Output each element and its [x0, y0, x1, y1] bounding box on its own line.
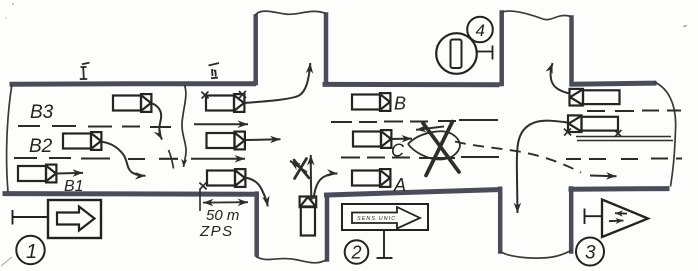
- svg-text:50 m: 50 m: [206, 207, 239, 224]
- svg-text:C: C: [391, 141, 405, 161]
- svg-text:4: 4: [476, 21, 485, 40]
- svg-text:B1: B1: [64, 178, 84, 195]
- svg-text:A: A: [393, 175, 406, 195]
- svg-text:SENS UNIC: SENS UNIC: [357, 216, 396, 222]
- svg-text:B2: B2: [29, 136, 53, 157]
- svg-text:1: 1: [26, 241, 37, 263]
- svg-text:2: 2: [351, 243, 362, 263]
- svg-text:3: 3: [585, 243, 596, 264]
- svg-text:B3: B3: [30, 102, 54, 123]
- svg-text:B: B: [394, 94, 406, 114]
- svg-text:ZPS: ZPS: [199, 223, 234, 240]
